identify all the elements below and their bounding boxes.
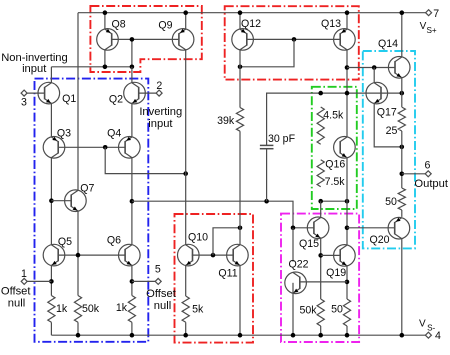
svg-text:5k: 5k <box>192 303 204 315</box>
junction V- rail / 5k <box>183 333 188 338</box>
wire 39k bottom to Q11 collector <box>239 131 241 245</box>
terminal 3 (non-inverting input) <box>21 90 27 96</box>
resistor 50 (Q19 emitter) <box>343 299 350 326</box>
wire Q10-Q11 base rail <box>192 254 233 256</box>
wire Q6 emitter to 1k <box>131 265 133 295</box>
wire Q13 to Q14 base <box>347 67 395 69</box>
label Q16 <box>325 158 345 170</box>
wire Q8-Q9 base link <box>112 38 179 40</box>
wire V+ rail <box>78 12 426 14</box>
svg-text:Q9: Q9 <box>158 20 172 32</box>
label 39k <box>217 115 235 127</box>
svg-text:50k: 50k <box>299 304 317 316</box>
junction Q19 base node <box>318 253 323 258</box>
transistor Q8 <box>97 29 119 51</box>
svg-text:null: null <box>154 300 171 312</box>
junction Q7 base <box>49 198 54 203</box>
junction Q20 base <box>345 226 350 231</box>
wire Q2 collector <box>131 67 133 83</box>
region box: class A gain stage (magenta) <box>281 214 359 342</box>
svg-text:25: 25 <box>386 125 398 137</box>
junction Q2 collector <box>130 65 135 70</box>
svg-text:Q14: Q14 <box>378 38 398 50</box>
transistor Q14 <box>388 57 410 79</box>
wire Q12 collector to 39k <box>239 50 241 108</box>
svg-text:Inverting: Inverting <box>139 106 182 118</box>
svg-text:Q15: Q15 <box>299 238 319 250</box>
wire Q2 base to terminal 2 <box>139 92 156 94</box>
wire Q11 emitter <box>239 265 241 335</box>
junction 4.5k top <box>318 91 323 96</box>
wire Q17 emitter <box>374 103 402 146</box>
junction Q16 emitter node <box>345 199 350 204</box>
label 1k (mid) <box>116 302 128 314</box>
wire 1k#2 to V- rail <box>131 322 133 335</box>
svg-text:Q12: Q12 <box>241 18 261 30</box>
wire terminal 1 <box>27 280 51 282</box>
terminal 2 (inverting input) <box>156 90 162 96</box>
label Q4 <box>107 128 121 140</box>
label pin 7 <box>433 8 439 20</box>
transistor Q1 <box>38 82 60 104</box>
label pin 5 <box>155 263 161 275</box>
svg-text:Q6: Q6 <box>107 235 121 247</box>
wire Q13 collector <box>346 50 348 137</box>
label pin 4 <box>435 330 441 342</box>
transistor Q11 <box>227 244 249 266</box>
transistor Q15 <box>307 217 329 239</box>
svg-text:1k: 1k <box>116 302 128 314</box>
wire Q2 emitter to Q4 emitter <box>131 103 133 137</box>
wire Q4 collector to Q6 collector <box>131 158 133 245</box>
label pin 3 <box>21 97 27 109</box>
resistor 39k <box>236 108 243 132</box>
resistor 50 (output) <box>398 188 405 210</box>
wire Q20 base <box>347 227 395 229</box>
wire Q7 emitter to Q5-Q6 base rail and 50k <box>77 211 79 296</box>
junction Q22 collector / Q15 base <box>291 226 296 231</box>
junction 30pF bottom <box>264 199 269 204</box>
wire Q10Q11 base to Q11 collector <box>213 228 240 255</box>
region box: input differential amplifier (blue) <box>35 79 149 342</box>
wire Q5-Q6 base rail <box>58 254 125 256</box>
svg-text:7.5k: 7.5k <box>325 176 346 188</box>
region box: output stage (cyan) <box>363 51 415 248</box>
wire Q3-Q4 base rail <box>58 146 125 148</box>
resistor 4.5k <box>317 107 324 144</box>
label Q12 <box>241 18 261 30</box>
svg-text:7: 7 <box>433 8 439 20</box>
label 4.5k <box>323 109 344 121</box>
junction Q19 emitter / Q22 base <box>345 280 350 285</box>
wire Q3Q4 base to Q9Q10 column <box>105 147 186 173</box>
label Q9 <box>158 20 172 32</box>
region box: voltage level shifter (green) <box>312 87 357 209</box>
junction V+ rail / Q8 <box>103 10 108 15</box>
transistor Q16 <box>334 137 356 159</box>
label Offset null (pin 1) <box>1 285 32 309</box>
junction V+ rail / Q12 <box>238 10 243 15</box>
junction V- rail / 50k <box>76 333 81 338</box>
svg-text:Output: Output <box>414 178 448 190</box>
junction V+ rail / Q14 <box>400 10 405 15</box>
label Q5 <box>58 236 72 248</box>
label 1k (left) <box>56 303 68 315</box>
wire Q1 collector <box>50 67 52 83</box>
label 25 <box>386 125 398 137</box>
svg-text:30 pF: 30 pF <box>268 133 296 145</box>
svg-text:Q11: Q11 <box>218 268 237 280</box>
junction Q8 collector <box>103 65 108 70</box>
junction V+ rail / Q13 <box>345 10 350 15</box>
wire Q1/Q8/Q2 collector bus <box>51 66 131 68</box>
svg-text:Q1: Q1 <box>62 93 76 105</box>
svg-text:Q4: Q4 <box>107 128 121 140</box>
resistor 25 <box>398 107 405 131</box>
svg-text:Q2: Q2 <box>109 94 123 106</box>
svg-text:input: input <box>22 63 47 75</box>
wire Q7 base <box>51 200 71 202</box>
svg-text:50: 50 <box>331 304 343 316</box>
terminal 7 (V S+) <box>426 10 432 16</box>
svg-text:Q3: Q3 <box>57 128 71 140</box>
wire Q15 collector <box>320 201 322 217</box>
label Output <box>414 178 448 190</box>
resistor 7.5k <box>317 160 324 187</box>
label Q3 <box>57 128 71 140</box>
svg-text:2: 2 <box>156 80 162 92</box>
transistor Q2 <box>124 82 146 104</box>
svg-text:50: 50 <box>385 196 397 208</box>
wire Q14 collector <box>401 13 403 57</box>
label Inverting input <box>139 106 182 130</box>
junction Q13 collector / Q14 base wire <box>345 65 350 70</box>
label V S- <box>419 318 436 332</box>
wire terminal 3 to Q1 base <box>27 92 44 94</box>
junction V- rail / Q11 <box>238 333 243 338</box>
wire Q12 base to collector <box>240 39 294 66</box>
wire Q20 collector to V- rail <box>401 239 403 336</box>
svg-text:Q17: Q17 <box>377 107 397 119</box>
transistor Q17 <box>366 82 388 104</box>
svg-text:Q16: Q16 <box>325 158 345 170</box>
label 30 pF <box>268 133 296 145</box>
wire Q12 emitter <box>239 13 241 29</box>
junction V- rail / Q22 <box>291 333 296 338</box>
svg-text:Q7: Q7 <box>80 182 94 194</box>
junction V- rail / 50k#2 <box>318 333 323 338</box>
label Q1 <box>62 93 76 105</box>
wire Q8 emitter <box>104 13 106 29</box>
wire Q14 emitter to 25 <box>401 78 403 108</box>
label 5k <box>192 303 204 315</box>
wire output to terminal 6 <box>402 173 425 175</box>
region box: current mirror Q8 Q9 (red) <box>90 6 201 72</box>
junction Q13 column at input row <box>345 91 350 96</box>
transistor Q5 <box>43 244 65 266</box>
label Q2 <box>109 94 123 106</box>
transistor Q13 <box>334 29 356 51</box>
label pin 1 <box>21 268 27 280</box>
wire Q17 collector <box>373 68 375 83</box>
label Q17 <box>377 107 397 119</box>
junction Q14 emitter / Q17 base <box>400 91 405 96</box>
transistor Q4 <box>119 137 141 159</box>
transistor Q12 <box>232 29 254 51</box>
svg-text:1: 1 <box>21 268 27 280</box>
label 50k (magenta) <box>299 304 317 316</box>
label Q15 <box>299 238 319 250</box>
wire input stage output to Q15/Q22 base <box>132 201 314 228</box>
wire 5k to V- rail <box>185 322 187 335</box>
svg-text:1k: 1k <box>56 303 68 315</box>
svg-text:Q19: Q19 <box>326 267 346 279</box>
label V S+ <box>420 21 437 35</box>
wire 30pF bottom lead <box>266 149 268 202</box>
resistor 50k (Q7 emitter) <box>74 296 81 323</box>
junction V- rail / 50#2 <box>345 333 350 338</box>
svg-text:V: V <box>419 318 426 329</box>
svg-text:null: null <box>8 298 25 310</box>
svg-text:Q8: Q8 <box>112 19 126 31</box>
svg-text:S+: S+ <box>426 26 436 35</box>
wire Q19 base <box>321 254 341 256</box>
label 50 (cyan) <box>385 196 397 208</box>
label pin 6 <box>425 159 431 171</box>
wire Q17 base to Q14 emitter line <box>381 92 402 94</box>
junction offset null 5 <box>130 279 135 284</box>
wire Q10 emitter to 5k <box>185 265 187 296</box>
label Non-inverting input <box>1 52 68 75</box>
junction Q3-Q4 base <box>103 145 108 150</box>
wire Q3 collector to Q5 collector <box>50 158 52 245</box>
label Q11 <box>218 268 237 280</box>
wire Q5 emitter to 1k <box>50 265 52 295</box>
capacitor 30pF <box>260 145 274 148</box>
wire terminal 5 <box>132 280 155 282</box>
wire 7.5k bottom to Q16 emitter/Q15 collector node <box>321 200 347 202</box>
junction Q9-Q10 column feed <box>183 171 188 176</box>
label 50k (left) <box>82 303 100 315</box>
label Q8 <box>112 19 126 31</box>
label Q10 <box>188 232 208 244</box>
junction offset null 1 <box>49 279 54 284</box>
transistor Q6 <box>119 244 141 266</box>
terminal 5 (offset null) <box>155 278 161 284</box>
svg-text:Q5: Q5 <box>58 236 72 248</box>
junction V- rail / 1k#2 <box>130 333 135 338</box>
junction 25 bottom <box>400 145 405 150</box>
wire Q9 emitter <box>185 13 187 29</box>
junction output node <box>400 172 405 177</box>
wire 25 bottom to output node <box>401 131 403 188</box>
transistor Q7 <box>65 190 87 212</box>
transistor Q3 <box>43 137 65 159</box>
wire V- rail <box>51 334 425 336</box>
resistor 1k (Q6 emitter) <box>128 296 135 323</box>
svg-text:4.5k: 4.5k <box>323 109 344 121</box>
junction Q8-Q9 base <box>130 37 135 42</box>
junction input stage output node <box>130 199 135 204</box>
transistor Q19 <box>334 245 356 267</box>
wire 1k to V- rail <box>50 322 52 335</box>
svg-text:input: input <box>148 118 173 130</box>
wire 50#2 to V- rail <box>346 326 348 335</box>
svg-text:S-: S- <box>427 323 435 332</box>
junction 7.5k bottom <box>318 199 323 204</box>
svg-text:3: 3 <box>21 97 27 109</box>
label Q6 <box>107 235 121 247</box>
wire Q15 emitter to Q19 base node <box>320 238 322 299</box>
svg-text:50k: 50k <box>82 303 100 315</box>
junction Q17 collector <box>372 65 377 70</box>
region box: current mirror Q10 Q11 (red) <box>175 214 254 343</box>
junction Q10-Q11 base <box>211 253 216 258</box>
wire Q13 emitter <box>346 13 348 29</box>
resistor 5k (Q10 emitter) <box>182 296 189 322</box>
label Q22 <box>288 259 308 271</box>
junction V+ rail / Q9 <box>183 10 188 15</box>
svg-text:Offset: Offset <box>146 288 177 300</box>
svg-text:4: 4 <box>435 330 441 342</box>
svg-text:Q22: Q22 <box>288 259 308 271</box>
svg-text:Q13: Q13 <box>321 18 341 30</box>
junction Q12 collector <box>238 65 243 70</box>
wire Q8 collector <box>104 50 106 67</box>
wire 50k#2 to V- rail <box>320 326 322 335</box>
label 7.5k <box>325 176 346 188</box>
svg-text:39k: 39k <box>217 115 235 127</box>
svg-text:Offset: Offset <box>1 285 32 297</box>
wire Q9 collector to Q10 collector <box>185 50 187 245</box>
wire Q22 emitter <box>292 283 294 335</box>
label Q13 <box>321 18 341 30</box>
svg-text:5: 5 <box>155 263 161 275</box>
wire Q7 collector to V+ rail <box>77 13 79 191</box>
junction Q12-Q13 base <box>292 37 297 42</box>
label Q19 <box>326 267 346 279</box>
label pin 2 <box>156 80 162 92</box>
wire 30pF top to 4.5k top and Q17 base node <box>267 93 381 145</box>
wire Q19 emitter to 50 <box>346 265 348 299</box>
wire Q12-Q13 base link <box>247 38 340 40</box>
terminal 1 (offset null) <box>21 278 27 284</box>
svg-text:6: 6 <box>425 159 431 171</box>
wire Q8 base junction to collector wire <box>131 39 133 66</box>
wire 50 to Q20 emitter <box>401 210 403 217</box>
wire Q16 emitter / Q19 collector column <box>346 158 348 245</box>
label Offset null (pin 5) <box>146 288 177 312</box>
region box: current mirror Q12 Q13 (red) <box>225 6 359 79</box>
transistor Q9 <box>172 29 194 51</box>
wire 50k to V- rail <box>77 322 79 335</box>
label Q14 <box>378 38 398 50</box>
resistor 1k (Q5 emitter) <box>48 296 55 323</box>
transistor Q22 <box>285 272 307 294</box>
transistor Q20 <box>388 217 410 239</box>
wire Q22 base <box>299 281 347 283</box>
junction Q11 collector / 39k bottom <box>238 226 243 231</box>
terminal 4 (V S-) <box>425 332 431 338</box>
terminal 6 (Output) <box>425 171 431 177</box>
resistor 50k (Q19 base) <box>317 299 324 326</box>
label 50 (magenta) <box>331 304 343 316</box>
svg-text:Q20: Q20 <box>369 234 389 246</box>
svg-text:Q10: Q10 <box>188 232 208 244</box>
wire Q22 collector <box>292 228 294 262</box>
transistor Q10 <box>178 244 200 266</box>
junction Q7 emitter / base rail <box>76 253 81 258</box>
label Q7 <box>80 182 94 194</box>
junction V- rail / Q20 <box>400 333 405 338</box>
label Q20 <box>369 234 389 246</box>
wire Q1 emitter to Q3 emitter <box>50 103 52 137</box>
